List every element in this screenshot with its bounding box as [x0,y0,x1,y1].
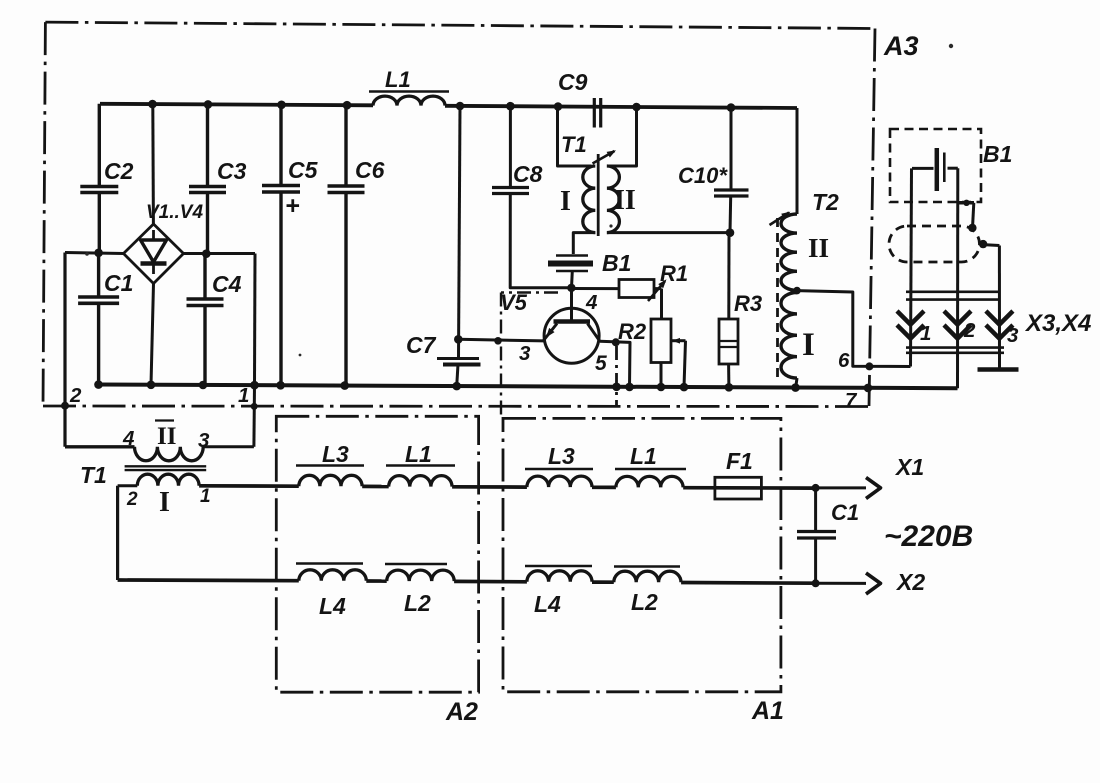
wire lamp pin 3 [998,246,1001,369]
starter B1 element [912,148,958,191]
block A1 dash-dot border [503,418,781,691]
connector X3,X4 pin 1 arrows [897,311,924,339]
svg-text:A3: A3 [883,31,919,61]
svg-text:T1: T1 [80,462,107,488]
capacitor C4 [187,254,242,385]
lamp right electrode connections [958,200,1000,249]
node C7 tap junction [454,335,463,344]
wire T1 winding II bottom to C10 node [607,231,730,234]
svg-text:C10*: C10* [678,163,728,188]
transformer T2 winding II [781,214,797,290]
fuse F1 [715,448,762,499]
resistor R1 (trimmer) [572,261,689,319]
svg-text:2: 2 [69,384,82,407]
resistor R2 (potentiometer) [618,319,686,387]
node bottom bus junctions [94,380,872,392]
fluorescent lamp dashed outline [889,226,980,262]
wire emitter to C7 tap [458,337,544,345]
capacitor C8 [492,106,571,288]
capacitor C3 [189,104,247,253]
transformer T1(bottom) winding I [118,474,200,580]
svg-text:+: + [285,192,300,220]
transformer T2 winding I [781,293,797,379]
transformer T1(bottom) core [125,466,207,470]
svg-text:A1: A1 [751,697,784,725]
svg-text:L3: L3 [322,441,349,467]
svg-text:L1: L1 [385,67,411,92]
block A3 dash-dot border [43,22,875,406]
svg-text:3: 3 [1007,324,1019,347]
svg-text:C6: C6 [355,157,385,183]
inductor L1 (A2) [386,441,455,487]
capacitor C6 [328,105,385,385]
svg-text:L1: L1 [405,441,432,467]
capacitor C10* [678,108,749,233]
inductor L3 (A2) [296,441,364,486]
svg-text:C2: C2 [104,158,134,184]
svg-text:I: I [802,327,815,363]
wire bridge bottom lead [151,284,154,385]
svg-text:A2: A2 [445,698,478,726]
svg-text:II: II [808,233,829,263]
svg-text:C3: C3 [217,158,247,184]
svg-text:X3,X4: X3,X4 [1024,310,1091,337]
wire top bus to T2 winding II [796,108,799,214]
svg-text:T2: T2 [812,189,839,215]
node top bus junctions [148,100,735,112]
wire top supply bus [100,104,797,108]
wire bottom common bus [99,385,958,389]
svg-text:5: 5 [595,352,607,375]
capacitor C1 (filter) [78,253,133,385]
node X2 junction [812,579,820,587]
svg-text:2: 2 [126,489,138,510]
svg-text:C9: C9 [558,69,588,95]
wire bridge AC right [184,254,256,386]
inductor L4 (A1) [525,566,592,617]
svg-text:7: 7 [845,389,858,412]
transformer T1(bottom) winding II [135,385,258,461]
svg-text:R1: R1 [660,261,688,286]
svg-text:V5: V5 [500,290,528,315]
svg-text:C8: C8 [513,161,543,187]
svg-text:L3: L3 [548,443,575,469]
capacitor C2 [80,104,133,253]
transformer T1 winding II [607,107,637,233]
svg-text:1: 1 [920,322,931,345]
svg-text:1: 1 [238,384,249,407]
wire T2 tap to lamp pin1 [797,291,911,371]
svg-text:4: 4 [585,291,598,314]
resonator B1 [548,250,631,288]
transformer T1 core with adjustment arrow [593,150,617,236]
svg-text:C5: C5 [288,157,319,183]
svg-text:B1: B1 [602,250,631,276]
module V5 dash-dot bracket [501,293,558,419]
svg-text:C1: C1 [831,500,859,525]
label winding II roman overlined [155,421,176,451]
svg-text:X2: X2 [895,569,925,595]
svg-text:3: 3 [198,429,210,452]
capacitor C9 (series) [558,69,601,128]
wire bridge top lead [151,104,155,224]
connector X2 arrow [816,573,881,594]
transformer T2 core (dashed) [776,218,779,378]
wire bridge AC left [65,253,124,254]
connector X3,X4 pin 2 arrows [944,311,971,339]
svg-text:~220В: ~220В [884,520,973,553]
wire mains bottom rail [118,580,816,583]
svg-text:1: 1 [200,486,211,507]
svg-text:R2: R2 [618,319,647,344]
node bridge wire junctions [94,249,210,259]
connector X3,X4 pin 3 arrows [986,311,1013,339]
svg-text:R3: R3 [734,291,762,316]
svg-text:L4: L4 [319,593,346,619]
wire T2 winding I to bus [796,378,797,388]
capacitor C7 [406,106,481,386]
svg-text:C7: C7 [406,332,437,358]
inductor L4 (A2) [296,564,366,620]
svg-text:I: I [159,487,170,518]
svg-text:C1: C1 [104,270,133,296]
transistor V5 [544,288,600,363]
node C10/R3 junction [726,228,735,237]
svg-text:II: II [614,185,636,216]
svg-text:T1: T1 [561,132,587,157]
svg-text:3: 3 [519,342,531,365]
inductor L3 (A1) [525,443,593,487]
node base junction (pin 4 net) [567,284,575,292]
svg-text:C4: C4 [212,271,242,297]
svg-text:L2: L2 [404,590,431,616]
svg-text:X1: X1 [894,454,924,480]
starter B1 dashed box [890,129,981,202]
svg-text:F1: F1 [726,448,753,474]
socket bars [906,348,1004,353]
svg-text:B1: B1 [983,141,1012,167]
svg-text:L1: L1 [630,443,657,469]
node T2 center tap [793,287,801,295]
T2 core adjustment arrow [770,212,791,225]
svg-text:I: I [560,186,571,217]
wire lamp pin 1 [911,168,912,366]
svg-text:4: 4 [122,427,135,450]
connector X1 arrow [816,478,881,499]
svg-text:L4: L4 [534,591,561,617]
wire mains top rail [199,486,816,488]
node X1 junction [812,484,820,492]
wire lamp pin 2 [956,168,959,388]
svg-text:6: 6 [838,349,850,372]
inductor L1 (top filter choke) [369,67,449,106]
wire left AC feed to T1 secondary [61,253,135,447]
svg-text:L2: L2 [631,589,658,615]
block A2 dash-dot border [276,416,478,692]
svg-text:II: II [157,423,176,450]
capacitor C5 (electrolytic +) [262,105,319,386]
ground [978,367,1019,372]
capacitor C1 (mains) [797,488,859,584]
lamp pin bars [906,292,1000,300]
svg-text:2: 2 [963,319,976,342]
inductor L2 (A1) [614,567,681,616]
bridge rectifier V1..V4 [124,224,184,284]
inductor L1 (A1) [615,443,686,487]
wire collector pin5 to bus [600,338,630,387]
transformer T1 feedback winding I [558,107,596,255]
scan speckles [85,44,953,357]
resistor R3 [719,233,762,388]
inductor L2 (A2) [385,564,454,616]
